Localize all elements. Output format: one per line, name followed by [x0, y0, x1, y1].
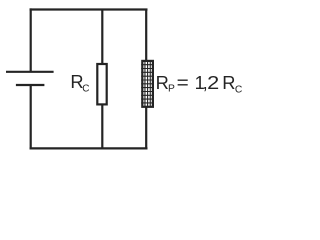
wire: left branch lower (battery to bottom rail) — [30, 85, 32, 150]
svg-text:RC: RC — [70, 71, 89, 94]
battery cell — [6, 72, 54, 85]
wire: middle branch lower (R_C to bottom rail) — [101, 104, 103, 148]
wire: bottom rail — [30, 147, 148, 149]
resistor R_C body — [97, 64, 106, 104]
wire: right branch lower (R_P to bottom rail) — [145, 107, 147, 149]
wire: middle branch upper (top rail to R_C) — [101, 10, 103, 65]
svg-text:RP=1,2RC: RP=1,2RC — [156, 72, 243, 96]
wire: right branch upper (top rail to R_P) — [145, 10, 147, 62]
resistor R_P body (grid-hatched) — [141, 61, 154, 107]
wire: left branch upper (top rail to battery) — [30, 8, 32, 71]
wire: top rail — [30, 8, 148, 10]
